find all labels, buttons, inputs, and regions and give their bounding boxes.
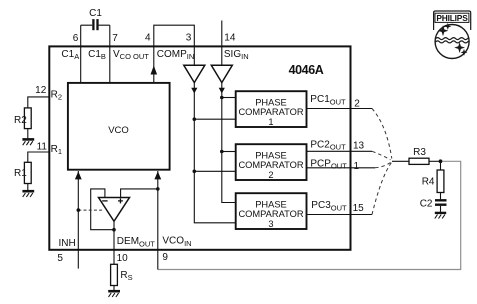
feedback wire R3/R4 node to pin 9 (gray): [158, 161, 461, 269]
wire PC1 output pin 2: [307, 108, 373, 110]
pin 1: [354, 161, 360, 172]
pin 11 wire to R1: [28, 152, 50, 162]
cell label C1A: [61, 49, 79, 61]
svg-text:13: 13: [353, 140, 365, 151]
internal label R2: [51, 89, 62, 101]
svg-text:COMPARATOR: COMPARATOR: [238, 107, 303, 117]
wire PCP output pin 1: [307, 167, 376, 169]
cell label VCO IN: [162, 236, 191, 248]
svg-text:SIGIN: SIGIN: [224, 49, 249, 61]
resistor RS: [111, 264, 133, 285]
svg-text:RS: RS: [120, 270, 132, 282]
svg-text:1: 1: [354, 161, 360, 172]
pin 3: [186, 33, 192, 44]
wire pin14 SIG IN stub: [221, 21, 223, 47]
phase comparator 3 box: [236, 193, 307, 229]
op-amp follower A3: [99, 198, 130, 222]
svg-text:7: 7: [112, 33, 118, 44]
label PCP OUT: [310, 158, 347, 170]
svg-text:R3: R3: [413, 147, 426, 158]
resistor R2: [14, 108, 31, 129]
internal label R1: [51, 144, 62, 156]
junction INH/dashed: [77, 208, 81, 212]
wire op-amp output DEM OUT pin 10: [113, 221, 115, 264]
VCO block: [68, 83, 170, 170]
wire COMP bus to PC1 input: [194, 118, 235, 120]
svg-text:PHASE: PHASE: [255, 200, 287, 210]
svg-text:PC1OUT: PC1OUT: [310, 94, 346, 106]
dashed link PC3 to filter node: [372, 163, 392, 215]
svg-text:3: 3: [268, 219, 273, 229]
svg-text:9: 9: [162, 252, 168, 263]
dashed link PC1 to filter node: [372, 109, 392, 159]
junction R3/R4 node: [439, 159, 443, 163]
svg-text:14: 14: [224, 33, 236, 44]
cell label VCO OUT: [113, 49, 149, 61]
wire PC2 output pin 13: [307, 150, 373, 152]
pin 14: [224, 33, 236, 44]
IC body 4046A outline: [49, 46, 350, 249]
pin 12 wire to R2: [28, 97, 50, 108]
svg-text:4: 4: [145, 33, 151, 44]
wire pin6 to VCO: [80, 25, 82, 83]
wire COMP bus to PC2 input: [194, 170, 235, 172]
junction SIG/PC1: [220, 96, 224, 100]
label PC3 OUT: [311, 200, 347, 212]
resistor R4: [422, 170, 444, 193]
pin 2: [354, 98, 360, 109]
wire R3 to junction: [429, 160, 441, 162]
phase comparator 1 box: [236, 91, 307, 127]
svg-text:VCO OUT: VCO OUT: [113, 49, 149, 61]
pin 10: [117, 253, 129, 264]
capacitor C2: [420, 199, 447, 210]
svg-text:3: 3: [186, 33, 192, 44]
COMP bus wire with arrow: [191, 83, 236, 223]
phase comparator 2 box: [236, 144, 307, 180]
svg-text:R1: R1: [14, 168, 27, 179]
cell label INH: [59, 238, 76, 249]
cell label C1B: [88, 49, 106, 61]
svg-text:C1B: C1B: [88, 49, 106, 61]
svg-text:COMPIN: COMPIN: [157, 49, 195, 61]
svg-text:PHASE: PHASE: [255, 98, 287, 108]
svg-text:PHASE: PHASE: [255, 151, 287, 161]
junction COMP/PC1: [193, 117, 197, 121]
VCO IN wire pin9 with arrow into VCO: [154, 171, 161, 270]
pin 9: [162, 252, 168, 263]
junction SIG/PC2: [220, 150, 224, 154]
svg-text:4046A: 4046A: [289, 63, 324, 77]
wire loop pin4 to pin3 (VCO out to COMP in): [154, 25, 195, 46]
wire R4 to C2: [440, 193, 442, 200]
dashed link PC2 to filter node: [372, 151, 391, 160]
svg-text:COMPARATOR: COMPARATOR: [238, 160, 303, 170]
junction COMP/PC2: [193, 170, 197, 174]
svg-text:11: 11: [37, 141, 48, 152]
label 4046A: [289, 63, 324, 77]
pin 12: [35, 85, 47, 96]
amplifier A2 (SIG IN buffer): [211, 65, 232, 82]
svg-text:C1: C1: [89, 8, 102, 19]
svg-text:6: 6: [73, 33, 79, 44]
svg-text:VCOIN: VCOIN: [162, 236, 191, 248]
junction op-amp output/feedback: [112, 228, 116, 232]
svg-text:12: 12: [35, 85, 47, 96]
svg-text:DEMOUT: DEMOUT: [117, 236, 155, 248]
pin 6: [73, 33, 79, 44]
pin 13: [353, 140, 365, 151]
dashed INH control to op-amp: [78, 209, 103, 211]
pin 15: [353, 203, 365, 214]
svg-text:2: 2: [268, 170, 273, 180]
wire junction to R4: [440, 161, 442, 170]
cell label DEM OUT: [117, 236, 155, 248]
dashed link PCP to filter node: [375, 163, 391, 168]
svg-text:5: 5: [57, 253, 63, 264]
ground below R1: [22, 184, 34, 198]
amplifier A1 (COMP IN buffer): [184, 65, 205, 82]
svg-text:COMPARATOR: COMPARATOR: [238, 209, 303, 219]
label PC1 OUT: [310, 94, 346, 106]
cell label SIG IN: [224, 49, 249, 61]
wire pin3 into amp A1: [193, 46, 195, 65]
cell label COMP IN: [157, 49, 195, 61]
svg-text:INH: INH: [59, 238, 76, 249]
svg-text:1: 1: [268, 117, 273, 127]
ground below C2: [435, 206, 446, 219]
INH wire pin5 with arrow into VCO: [75, 171, 82, 269]
resistor R1: [14, 162, 31, 183]
svg-text:PC3OUT: PC3OUT: [311, 200, 347, 212]
svg-text:15: 15: [353, 203, 365, 214]
svg-text:R2: R2: [14, 115, 27, 126]
ground below R2: [22, 129, 34, 146]
capacitor C1: [81, 8, 110, 30]
ground below RS: [108, 286, 120, 298]
pin 5: [57, 253, 63, 264]
svg-text:R4: R4: [422, 177, 435, 188]
resistor R3: [409, 147, 429, 165]
svg-text:PCPOUT: PCPOUT: [310, 158, 347, 170]
svg-text:C1A: C1A: [61, 49, 79, 61]
pin 4: [145, 33, 151, 44]
wire PC3 output pin 15: [307, 214, 373, 216]
pin 7: [112, 33, 118, 44]
wire VCO output to pin 4 with up arrow: [151, 46, 158, 83]
pin 11: [37, 141, 48, 152]
Philips logo: [434, 11, 471, 59]
wire op-amp minus input feedback loop: [91, 189, 114, 230]
svg-text:R2: R2: [51, 89, 62, 101]
svg-text:C2: C2: [420, 199, 433, 210]
node filter input / wire to R3: [392, 160, 409, 162]
svg-text:2: 2: [354, 98, 360, 109]
SIG bus wire with arrow: [219, 83, 236, 203]
wire pin14 into amp A2: [221, 46, 223, 65]
wire pin7 to VCO: [109, 25, 111, 83]
junction VCO IN / op-amp input: [156, 187, 160, 191]
wire SIG bus to PC1 input: [222, 97, 236, 99]
wire SIG bus to PC2 input: [222, 151, 236, 153]
svg-text:VCO: VCO: [108, 125, 129, 136]
svg-text:R1: R1: [51, 144, 62, 156]
svg-text:PHILIPS: PHILIPS: [436, 13, 468, 23]
svg-text:PC2OUT: PC2OUT: [310, 139, 346, 151]
label PC2 OUT: [310, 139, 346, 151]
wire op-amp plus input from VCO IN: [121, 189, 158, 198]
svg-text:10: 10: [117, 253, 129, 264]
